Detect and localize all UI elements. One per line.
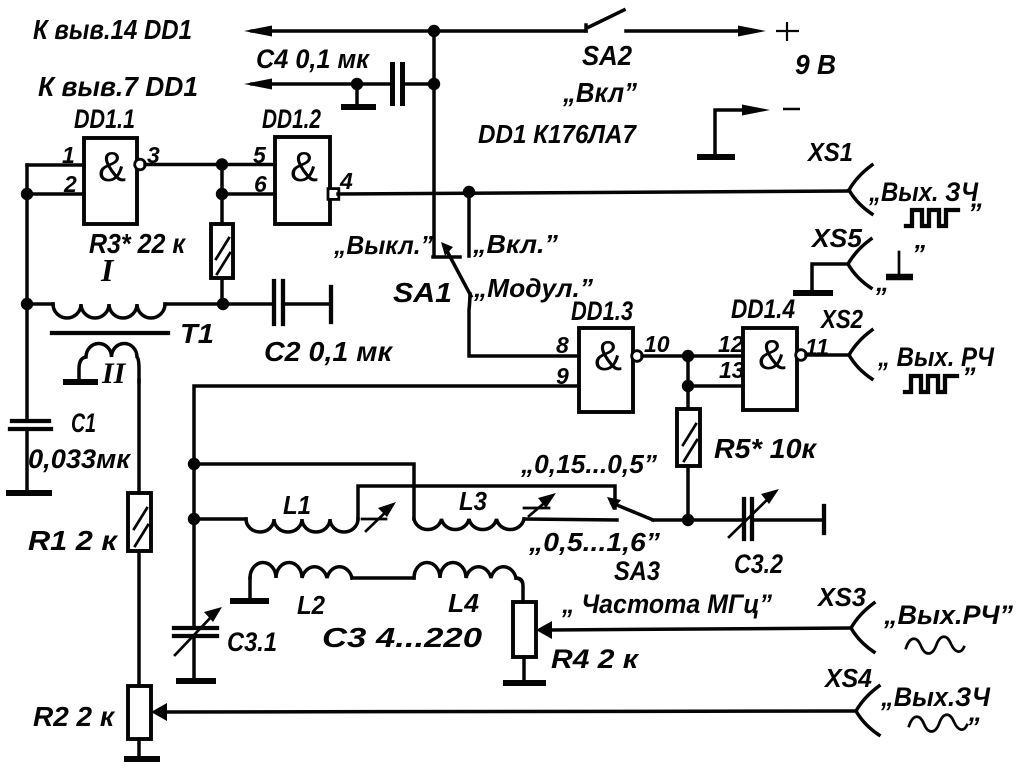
op gate DD1.4: [743, 328, 797, 410]
connector XS3: [851, 603, 874, 652]
ground bar at XS5: [796, 290, 830, 296]
svg-text:„0,15...0,5”: „0,15...0,5”: [520, 449, 657, 479]
svg-text:„Вых.РЧ”: „Вых.РЧ”: [883, 600, 1013, 630]
resistor R3: [211, 224, 233, 278]
svg-text:„Вых. ЗЧ: „Вых. ЗЧ: [868, 177, 979, 207]
svg-text:L4: L4: [448, 588, 480, 618]
wire L1 end up-over to SA3 upper throw: [358, 486, 615, 519]
node pin10/pin12: [682, 350, 694, 362]
minus dash: [783, 108, 800, 111]
wire pin 13: [688, 384, 743, 388]
wire SA1 common to pin 8: [469, 294, 579, 356]
sine glyph at XS3: [906, 637, 964, 654]
node SA1 Вкл contact: [463, 186, 475, 198]
svg-text:”: ”: [968, 198, 982, 228]
svg-text:R5* 10к: R5* 10к: [714, 433, 818, 464]
wiper arrow of R2: [151, 703, 856, 721]
wire XS5 to ground: [812, 264, 848, 291]
node SA3 / R5: [682, 514, 694, 526]
+ symbol: [776, 22, 799, 41]
svg-text:XS4: XS4: [823, 663, 872, 693]
wire R3 to T1 primary: [220, 278, 224, 304]
wire pin 12: [688, 354, 743, 358]
svg-text:SA1: SA1: [393, 277, 452, 308]
svg-text:5: 5: [253, 142, 267, 168]
wire L2 to L4: [352, 576, 414, 580]
svg-text:R4 2 к: R4 2 к: [551, 644, 639, 674]
svg-text:”: ”: [966, 712, 980, 742]
svg-text:L2: L2: [297, 590, 325, 620]
wire C1 to ground: [25, 429, 29, 491]
transformer T1 core: [52, 331, 168, 335]
tuning arrow of C3.2: [729, 489, 779, 537]
ground bar under R2: [127, 756, 157, 762]
svg-text:”: ”: [912, 239, 925, 269]
wiper arrow of R4: [536, 621, 851, 639]
terminal bar after C3.2: [822, 506, 826, 533]
node T1 primary / left bus: [21, 298, 33, 310]
terminal bar of winding II: [66, 379, 95, 385]
wire L4 to R4: [516, 578, 523, 602]
svg-text:C1: C1: [71, 408, 96, 438]
svg-text:8: 8: [556, 332, 569, 358]
svg-text:DD1.1: DD1.1: [74, 104, 135, 134]
svg-text:DD1.4: DD1.4: [731, 294, 795, 324]
connector XS4: [856, 686, 879, 735]
wire pin 1 from left bus: [27, 163, 84, 167]
ground bar of minus terminal: [700, 154, 732, 160]
connector XS1: [849, 165, 872, 214]
op gate DD1.1: [84, 138, 137, 224]
svg-text:L1: L1: [283, 490, 311, 520]
inductor L1: [246, 519, 358, 532]
square wave glyph at XS2: [905, 376, 957, 392]
ground bar under R4: [506, 680, 543, 686]
svg-text:SA3: SA3: [614, 556, 660, 586]
wire pin 4 DD1.2 to XS1: [338, 191, 849, 194]
svg-text:&: &: [290, 143, 318, 190]
ground bar under C3.1: [179, 678, 213, 684]
wire left bus to T1: [27, 302, 53, 306]
wire R1 to R2: [137, 551, 141, 686]
svg-text:&: &: [594, 332, 622, 379]
node R3 / T1 / C2: [217, 298, 229, 310]
wire pin 6: [222, 192, 275, 196]
wire C3.2 to terminal: [754, 518, 822, 522]
wire SA3 common to C3.2: [653, 518, 742, 522]
wire SA2 to + terminal: [626, 26, 766, 37]
ground bar under C1: [9, 490, 49, 496]
svg-text:SA2: SA2: [582, 40, 632, 71]
tuning arrow of L1: [362, 502, 396, 531]
capacitor C1: [10, 421, 51, 429]
svg-text:К выв.7 DD1: К выв.7 DD1: [38, 71, 198, 102]
svg-text:„Вкл.”: „Вкл.”: [472, 229, 558, 259]
wire tank bus to L3 (upper branch): [194, 464, 414, 519]
svg-text:R1 2 к: R1 2 к: [28, 525, 119, 556]
switch SA2: [586, 10, 624, 31]
svg-text:&: &: [98, 143, 126, 190]
svg-text:К выв.14 DD1: К выв.14 DD1: [33, 14, 192, 45]
switch SA1 lever: [441, 242, 471, 296]
svg-text:6: 6: [254, 171, 267, 197]
resistor R1: [128, 493, 151, 551]
potentiometer R2: [128, 686, 151, 739]
SA1 Выкл contact tick: [433, 255, 460, 259]
resistor R5: [677, 409, 700, 466]
svg-text:C2 0,1 мк: C2 0,1 мк: [264, 336, 394, 367]
main vertical bus wire: [432, 31, 436, 256]
svg-text:12: 12: [718, 331, 744, 357]
inductor L3: [414, 519, 524, 530]
node at V+ rail / main bus: [428, 25, 440, 37]
tuning arrow of C3.1: [175, 607, 222, 655]
svg-text:&: &: [758, 331, 786, 378]
svg-text:C3 4...220: C3 4...220: [322, 622, 483, 653]
output bubble pin 10 of DD1.3: [632, 351, 643, 362]
svg-text:0,033мк: 0,033мк: [28, 444, 131, 474]
svg-text:DD1 К176ЛА7: DD1 К176ЛА7: [478, 119, 637, 149]
svg-text:DD1.3: DD1.3: [571, 296, 633, 326]
svg-text:T1: T1: [180, 318, 214, 349]
wire winding II to R1: [137, 380, 141, 493]
svg-text:9 В: 9 В: [795, 49, 836, 80]
svg-text:„: „: [875, 267, 889, 297]
wire R4 to ground: [522, 657, 526, 681]
sine glyph at XS4: [909, 715, 967, 732]
wire pin 11 to XS2: [806, 353, 849, 357]
wire pin 9 from tank bus: [194, 386, 579, 627]
svg-text:XS2: XS2: [819, 304, 863, 334]
wire C2 to terminal: [285, 302, 329, 306]
terminal bar after C2: [329, 287, 333, 322]
wire R2 to ground: [137, 739, 141, 757]
chassis symbol label at XS5: [875, 239, 925, 297]
wire pin 3 to node: [145, 163, 222, 167]
wire L3 to SA3 lower throw: [524, 519, 617, 520]
node tank bus lower: [188, 513, 200, 525]
node pin6 / R3: [216, 188, 228, 200]
vertical wire node to node: [686, 356, 690, 409]
connector XS5: [848, 239, 871, 288]
wire pin 10 to node: [642, 354, 688, 358]
svg-text:XS3: XS3: [816, 582, 866, 612]
ground stub at C4: [344, 84, 373, 107]
wire pin 2: [27, 192, 84, 196]
node C4 / bus: [428, 78, 440, 90]
node gnd rail / ground stub: [351, 78, 363, 90]
output bubble pin 11 of DD1.4: [796, 350, 807, 361]
transformer T1 primary winding: [53, 304, 165, 318]
potentiometer R4: [513, 602, 536, 657]
switch SA3 lever: [607, 497, 653, 520]
wire to pin 14 DD1 (V+ rail, left arrow): [244, 26, 586, 37]
node tank bus upper: [188, 458, 200, 470]
wire T1 primary to C2: [165, 302, 274, 306]
svg-text:DD1.2: DD1.2: [262, 104, 321, 134]
wire R5 to SA3 common: [686, 466, 690, 520]
node pin3/pin5: [216, 158, 228, 170]
svg-text:„Выкл.”: „Выкл.”: [333, 230, 433, 260]
vertical wire between nodes to R3: [220, 165, 224, 225]
output bubble pin 4 of DD1.2: [328, 189, 339, 200]
tuning arrow of L3: [524, 493, 556, 516]
capacitor C4: [393, 62, 403, 106]
svg-text:„ Вых. РЧ: „ Вых. РЧ: [877, 342, 995, 372]
left bus vertical wire: [25, 165, 29, 420]
svg-text:„0,5...1,6”: „0,5...1,6”: [528, 527, 660, 557]
svg-text:„ Частота МГц”: „ Частота МГц”: [561, 589, 772, 619]
wire pin 5: [222, 163, 275, 167]
node pin13 / R5: [682, 380, 694, 392]
ground bar under L2: [233, 598, 266, 604]
node pin 2 / left bus: [21, 188, 33, 200]
svg-text:4: 4: [339, 168, 353, 194]
capacitor C3.2: [744, 499, 752, 539]
svg-text:9: 9: [556, 363, 569, 389]
wire C3.1 to ground: [192, 636, 196, 679]
svg-text:I: I: [100, 252, 115, 288]
svg-text:II: II: [101, 357, 127, 390]
capacitor C3.1: [174, 628, 217, 636]
svg-text:„Вых.ЗЧ: „Вых.ЗЧ: [880, 682, 991, 712]
minus terminal corner wire: [715, 105, 770, 156]
connector XS2: [849, 330, 872, 379]
svg-text:10: 10: [644, 331, 670, 357]
svg-text:R2 2 к: R2 2 к: [33, 701, 116, 732]
transformer T1 secondary winding II: [79, 343, 139, 382]
svg-text:13: 13: [719, 357, 745, 383]
svg-text:C3.1: C3.1: [227, 627, 277, 657]
SA1 Вкл contact stub: [467, 192, 471, 256]
capacitor C2: [274, 281, 283, 324]
inductor L2: [250, 563, 352, 579]
inductor L4: [414, 563, 516, 579]
svg-text:C4 0,1 мк: C4 0,1 мк: [256, 44, 370, 74]
op gate DD1.2: [275, 137, 330, 224]
svg-text:L3: L3: [459, 486, 487, 516]
svg-text:C3.2: C3.2: [734, 549, 783, 579]
svg-text:„Вкл”: „Вкл”: [562, 77, 637, 108]
wire ground to L2: [248, 578, 252, 601]
square wave glyph at XS1: [906, 210, 958, 226]
svg-text:”: ”: [962, 362, 976, 392]
op gate DD1.3: [579, 328, 633, 412]
svg-text:XS5: XS5: [810, 223, 863, 253]
svg-text:XS1: XS1: [806, 137, 853, 167]
wire to pin 7 DD1 (gnd rail, left arrow): [244, 79, 390, 90]
wire tank bus to L1: [194, 517, 246, 521]
wire C4 to bus: [405, 82, 434, 86]
output bubble pin 3 of DD1.1: [135, 159, 146, 170]
